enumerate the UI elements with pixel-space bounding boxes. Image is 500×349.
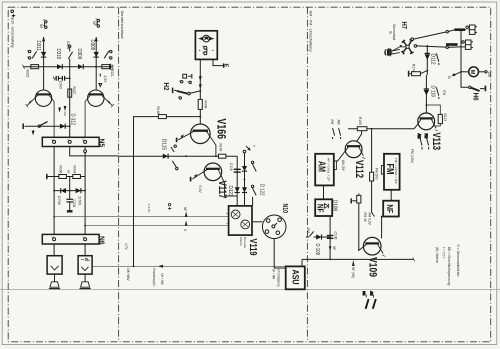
svg-text:D310: D310 — [55, 49, 61, 60]
svg-text:C304: C304 — [72, 200, 76, 208]
svg-text:V113: V113 — [430, 133, 442, 151]
diode D122a — [242, 166, 247, 171]
wire (V109 base up through resistor) — [358, 203, 360, 250]
node junction feeder/motor — [460, 71, 462, 73]
svg-text:D112: D112 — [430, 54, 436, 65]
svg-text:Fernausblendung AL-1: Fernausblendung AL-1 — [152, 269, 156, 287]
svg-text:D709: D709 — [78, 197, 82, 206]
pin N6-1 — [53, 238, 56, 241]
wire (E stub) — [213, 59, 224, 65]
wire (FM 9V column) — [372, 129, 375, 217]
node circle end — [446, 31, 448, 33]
svg-text:V119: V119 — [247, 239, 259, 256]
svg-text:D309: D309 — [76, 49, 82, 60]
transistor T-right — [85, 90, 114, 137]
svg-text:V166: V166 — [214, 119, 226, 140]
svg-text:N10: N10 — [281, 204, 290, 214]
capacitor C116 — [234, 169, 241, 173]
wire (indicator box right to ASU line) — [92, 265, 286, 267]
svg-text:V112: V112 — [353, 160, 365, 178]
svg-text:FM: FM — [330, 120, 334, 125]
svg-text:R174: R174 — [412, 64, 416, 72]
svg-text:† = 7,5 V: † = 7,5 V — [441, 247, 445, 259]
wire (N6 pin1 down) — [53, 244, 55, 256]
node junction D312/S104 column — [69, 125, 71, 127]
svg-text:11: 11 — [82, 138, 86, 141]
node b circle top of column — [243, 146, 250, 153]
resistor R406 — [198, 99, 202, 109]
capacitor C304 — [66, 177, 73, 211]
switch FM antenna — [362, 291, 369, 309]
node NF top-left arrow — [42, 37, 45, 41]
svg-text:FM: FM — [442, 90, 446, 95]
svg-text:NF: NF — [66, 170, 70, 174]
svg-text:D108: D108 — [332, 200, 338, 211]
node junction bus/D311 — [43, 66, 45, 68]
connector box 2 — [462, 40, 473, 49]
svg-text:R322: R322 — [26, 70, 30, 78]
svg-text:DK = Durchflußspannung: DK = Durchflußspannung — [447, 247, 451, 286]
svg-text:AM 0,2V: AM 0,2V — [367, 213, 371, 226]
SECTION-LEFT — [11, 10, 286, 289]
svg-text:Sendersuchlauf: Sendersuchlauf — [120, 11, 125, 40]
svg-text:V117: V117 — [216, 181, 228, 199]
connector N10 — [262, 215, 286, 239]
svg-text:Servomat: Servomat — [392, 24, 396, 40]
svg-text:R165: R165 — [358, 117, 362, 125]
svg-text:C116: C116 — [229, 163, 233, 171]
wire (motor box down to V166) — [199, 59, 201, 123]
wire (NF right down to V109) — [382, 190, 392, 239]
wire (D311 column) — [43, 37, 45, 90]
node arrows above D312 — [58, 106, 66, 116]
label AM-FM bottom — [362, 291, 376, 309]
svg-text:Stereo: Stereo — [239, 237, 243, 246]
node bus right tick — [413, 257, 415, 261]
wire (NF left down) — [329, 216, 331, 235]
node NF arrow line1 — [185, 212, 188, 217]
wire (plug right end of bus) — [111, 64, 113, 70]
switch below D115 — [171, 145, 178, 170]
transducer left — [49, 274, 60, 289]
resistor R174 — [409, 71, 428, 77]
wire (H7 contact to relay bar 2) — [417, 46, 446, 47]
svg-text:C303: C303 — [59, 81, 63, 89]
node junction D115 line — [185, 155, 187, 157]
wire (N5 pin1 down to NF line) — [53, 147, 55, 235]
wire (NF line 2 to stereo decoder) — [85, 225, 229, 227]
node b circles above D311 — [45, 21, 47, 29]
svg-text:NF: NF — [183, 207, 187, 211]
relay bar 1 — [454, 28, 465, 31]
switch H6 lever — [469, 86, 486, 92]
diode D312 — [60, 124, 65, 129]
diode D310 — [57, 64, 62, 69]
node junction D112 top — [426, 45, 428, 47]
resistor R321 — [102, 65, 110, 69]
diode D110 — [424, 75, 429, 97]
node junction NF bottom — [375, 216, 377, 218]
node junction D708 row — [53, 190, 86, 192]
IC N6 — [42, 234, 99, 244]
svg-text:FM: FM — [306, 228, 310, 233]
svg-text:FM: FM — [362, 291, 366, 296]
pin N5-2 — [68, 140, 71, 143]
switch AM/FM pair below V113 — [420, 138, 429, 150]
node plug symbol left of motor wire — [183, 74, 192, 79]
diode D123 — [235, 187, 240, 192]
node NF9V arrow — [329, 246, 332, 252]
svg-text:4,7V Schaltspannung: 4,7V Schaltspannung — [277, 269, 281, 287]
pin N5-1 — [53, 140, 56, 143]
section divider left — [118, 7, 120, 342]
wire (AM box down to NF box) — [323, 185, 325, 199]
svg-text:14V: 14V — [487, 72, 491, 79]
indicator box left — [47, 256, 62, 274]
switch right of D110 — [436, 87, 438, 99]
transistor V113 — [418, 113, 438, 131]
node junction above V166 — [199, 116, 201, 118]
node junction stub — [69, 77, 71, 79]
diode D122b — [242, 187, 247, 192]
wire (N5 pin3 down) — [84, 147, 86, 235]
svg-text:R327: R327 — [72, 87, 76, 95]
svg-text:AM: AM — [417, 134, 421, 139]
switch a/b left of D311 — [28, 50, 36, 59]
relay bar 2 — [446, 43, 458, 46]
node junction NF line 2 — [84, 225, 86, 227]
switch S104 column — [68, 45, 72, 137]
node motor right contact — [479, 71, 488, 73]
wire (feeder to motor M) — [461, 71, 469, 73]
IC N5 — [42, 137, 99, 146]
svg-text:R113: R113 — [443, 114, 447, 122]
node (bus left tick) — [23, 65, 25, 69]
resistor R165 — [357, 127, 367, 131]
svg-text:UK + MW: UK + MW — [160, 274, 164, 285]
svg-text:R169: R169 — [156, 107, 160, 115]
svg-text:AM: AM — [336, 120, 340, 125]
svg-text:M: M — [469, 70, 475, 75]
svg-text:V109: V109 — [367, 257, 379, 277]
node junction bus/D308 — [95, 66, 97, 68]
switch FM on D109 line — [306, 231, 314, 237]
wire (bar2 to box2) — [448, 46, 465, 48]
svg-text:DK + MW: DK + MW — [272, 269, 276, 279]
node junction R165 — [371, 128, 373, 130]
section divider right — [306, 7, 308, 342]
svg-text:AM - FM - Umschaltung: AM - FM - Umschaltung — [308, 11, 313, 52]
svg-text:DK+MW: DK+MW — [126, 269, 130, 281]
diode D311 — [41, 52, 46, 57]
node test point b near V117 — [168, 203, 171, 209]
svg-text:NF: NF — [316, 204, 325, 213]
block NF right — [383, 201, 399, 217]
wire (N6 pin2 down) — [84, 244, 86, 256]
motor M6 — [469, 67, 479, 77]
node junction NF/V109 top — [381, 216, 383, 218]
node junction bus/C106 — [329, 259, 331, 261]
switch on D312 line — [38, 122, 48, 128]
transistor V117 — [191, 163, 238, 196]
node NF arrow above D308 — [95, 37, 98, 41]
svg-text:FM (15V): FM (15V) — [410, 149, 414, 163]
diode D709 — [76, 188, 81, 193]
svg-text:R164: R164 — [219, 144, 223, 152]
wire (R164 corner down to stereo decoder) — [236, 156, 238, 206]
power block ASU — [286, 266, 305, 289]
svg-text:S: S — [183, 229, 187, 231]
horn symbol left of H7 — [385, 48, 392, 55]
svg-text:H2: H2 — [162, 83, 171, 91]
transducer right — [80, 274, 91, 289]
diode D109 — [314, 234, 331, 239]
node junction column/ASU line — [133, 265, 135, 267]
node junction bus/S104 — [69, 66, 71, 68]
diode D112 — [425, 46, 430, 71]
svg-text:S 2,5V: S 2,5V — [147, 204, 151, 213]
svg-text:S = Servomatbetrieb: S = Servomatbetrieb — [456, 244, 460, 276]
label 2,5V mark — [99, 74, 102, 87]
svg-text:D 110: D 110 — [430, 86, 436, 98]
svg-text:HF / OSz / ZF: HF / OSz / ZF — [326, 158, 330, 182]
svg-text:FM 4V: FM 4V — [363, 213, 367, 223]
motor box M — [195, 31, 217, 60]
resistor R113 right of V113 — [426, 105, 442, 126]
svg-text:GLD - Umschaltung: GLD - Umschaltung — [10, 17, 15, 48]
ground bar below C304 — [67, 210, 73, 212]
diode D708 — [54, 188, 85, 193]
node plug left of D312 line — [22, 123, 24, 129]
diode D309 — [78, 64, 83, 69]
block FM — [381, 154, 399, 190]
node junction C106/D109 — [329, 236, 331, 238]
SECTION-RIGHT — [302, 25, 487, 266]
transistor T-left — [26, 90, 55, 137]
indicator box right — [78, 256, 92, 274]
svg-text:N 4V: N 4V — [198, 186, 202, 194]
node B arrow — [452, 72, 461, 76]
node a (frame corner connector symbol) — [11, 10, 15, 17]
switch FM/AM pair above V112 — [333, 128, 341, 139]
svg-text:C106: C106 — [334, 232, 338, 240]
wire (D115 line) — [119, 155, 216, 157]
wire (V113 collector up) — [425, 97, 427, 113]
svg-text:2,5V: 2,5V — [103, 76, 107, 84]
svg-text:Decoder: Decoder — [243, 237, 247, 249]
svg-text:R406: R406 — [203, 101, 207, 109]
svg-text:D308: D308 — [89, 40, 95, 51]
svg-text:D123: D123 — [227, 186, 233, 197]
capacitor C106 — [327, 235, 334, 260]
switch pair right of diodes — [251, 161, 256, 206]
transistor V112 — [336, 141, 365, 161]
resistor R164 — [216, 154, 237, 158]
svg-text:ASU: ASU — [289, 270, 300, 285]
rotary switch H7 — [392, 39, 413, 54]
diode D115 — [163, 154, 168, 159]
wire (D312 line) — [25, 125, 70, 127]
pin N5-3 — [84, 140, 87, 143]
switch right of D112 — [436, 53, 438, 65]
node junction diode column — [244, 179, 246, 181]
transistor V166 — [177, 124, 216, 156]
svg-text:D 122: D 122 — [259, 184, 265, 196]
svg-text:FM (9V): FM (9V) — [375, 168, 379, 180]
node E terminal — [223, 63, 225, 67]
resistor R-FM9V — [370, 172, 374, 181]
wire (bus 259.4) — [302, 259, 414, 266]
diode D122 top-left pair above stereo box — [238, 186, 240, 197]
svg-text:(M) = Wartron: (M) = Wartron — [435, 247, 439, 263]
wire (stereo decoder to N10) — [252, 221, 262, 223]
resistor R322 — [31, 65, 39, 69]
svg-text:H6: H6 — [472, 93, 481, 101]
diode D308 — [94, 52, 99, 57]
node junction emitter/line — [215, 155, 217, 157]
svg-text:N5: N5 — [98, 139, 107, 148]
node junction NF line 1 — [53, 216, 55, 218]
resistor R306 row — [47, 174, 85, 179]
svg-text:D115: D115 — [160, 139, 166, 150]
svg-text:H7: H7 — [400, 22, 409, 30]
node b circles above D308 — [97, 19, 99, 27]
switch H2 — [173, 81, 201, 100]
wire (D308 column) — [95, 37, 97, 90]
svg-text:4,7V: 4,7V — [124, 243, 128, 250]
svg-text:D311: D311 — [35, 41, 41, 52]
switch a/b right of D308 — [104, 50, 112, 59]
wire (second diode column) — [244, 153, 246, 206]
svg-text:E: E — [223, 64, 229, 68]
node NF arrow up left of V109 — [352, 260, 355, 266]
wire (N10 down to ASU) — [274, 239, 286, 268]
fold line (grey horizontal) — [0, 289, 500, 291]
svg-text:R306: R306 — [59, 166, 63, 174]
node contact circles of H7 — [411, 38, 417, 47]
block AM — [315, 154, 336, 186]
svg-text:NF (9V): NF (9V) — [351, 267, 355, 278]
wire (bar1 stub) — [448, 30, 469, 32]
svg-text:S104: S104 — [66, 41, 70, 49]
wire (N5 pin2 down, corner to D115 line) — [70, 147, 119, 156]
svg-text:K: K — [204, 37, 209, 40]
wire (V112 collector line to V113 base) — [348, 124, 418, 142]
wire (feeder down to H6) — [461, 72, 469, 88]
transistor V109 — [359, 237, 386, 256]
block NF left with D108 — [315, 199, 332, 216]
svg-text:N6: N6 — [97, 236, 106, 245]
svg-text:NF: NF — [385, 205, 394, 214]
node junction R174 — [426, 70, 428, 72]
svg-text:FM: FM — [424, 134, 428, 139]
svg-text:R304: R304 — [73, 166, 77, 174]
node junction bar2/vertical — [460, 46, 462, 48]
svg-text:FM: FM — [384, 164, 395, 175]
horn symbol left of H7 — [385, 49, 400, 57]
svg-text:D708: D708 — [57, 196, 61, 205]
svg-text:NF: NF — [332, 246, 336, 250]
wire (tuning bus y=66.7) — [23, 66, 112, 68]
wire (vertical feeder x=461) — [460, 31, 462, 72]
capacitor C303 pair on stub — [53, 76, 69, 81]
node arrowhead on ASU line — [158, 265, 163, 268]
wire (NF line 1 to stereo decoder) — [54, 216, 229, 218]
resistor R169 — [158, 115, 166, 119]
node circle end2 — [446, 46, 448, 48]
pin letters group — [26, 18, 256, 238]
node arrow below switch — [32, 131, 35, 136]
pin circle below N5 pin3 — [84, 150, 87, 153]
node circle below plug — [189, 81, 191, 83]
svg-text:AM: AM — [315, 161, 326, 172]
op-amp U1 (stereo decoder block) — [229, 206, 252, 235]
pin N6-2 — [84, 238, 87, 241]
connector box 1 — [466, 25, 477, 34]
svg-text:D 312: D 312 — [69, 114, 75, 126]
wire (H7 contact to relay bar 1) — [413, 32, 446, 39]
svg-text:R321: R321 — [110, 69, 114, 77]
node junction V113 collector — [426, 104, 428, 106]
SECTION-CENTER — [119, 31, 305, 290]
resistor R327 — [68, 89, 72, 97]
node arrow chevrons on motor wire — [199, 76, 202, 88]
node junction motor wire / H2 — [199, 90, 201, 92]
svg-text:HF / OSZ / ZF: HF / OSZ / ZF — [394, 158, 398, 184]
wire (junction left to R169 and down-column) — [134, 117, 201, 267]
svg-text:AM (5V: AM (5V — [341, 160, 345, 172]
svg-text:D 109: D 109 — [314, 244, 320, 256]
resistor R-V109 — [351, 193, 361, 203]
svg-text:AM: AM — [370, 291, 374, 296]
switch AM antenna — [370, 291, 376, 309]
node NF arrow line2 — [185, 220, 188, 225]
